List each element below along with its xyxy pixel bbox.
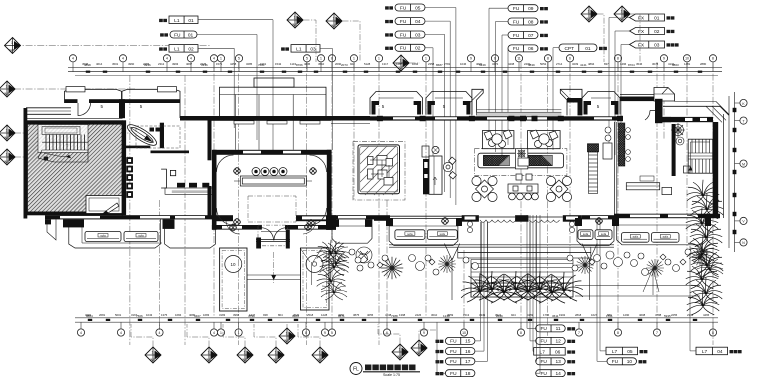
callout L1 02: [159, 47, 167, 50]
svg-text:8: 8: [617, 331, 619, 335]
svg-text:4408: 4408: [508, 62, 515, 66]
svg-text:FX: FX: [638, 15, 645, 21]
callout FU 13: [536, 358, 566, 365]
reception dark blocks: [150, 128, 155, 132]
side cabinet dark: [619, 123, 625, 166]
palm plants: [689, 242, 715, 262]
svg-text:FU: FU: [612, 359, 619, 365]
service station center: [508, 174, 538, 200]
svg-text:L7: L7: [540, 349, 546, 355]
lounge sofa table: [626, 176, 671, 195]
door arc bay1: [78, 103, 91, 116]
parasol table: [381, 257, 404, 280]
svg-text:12: 12: [555, 339, 561, 345]
terrace edge: [389, 245, 614, 247]
bottom dimension line: [75, 318, 718, 322]
callout FU 10: [607, 358, 637, 365]
dining set: [546, 176, 571, 201]
svg-text:2681: 2681: [99, 313, 106, 317]
svg-text:01: 01: [654, 15, 660, 21]
svg-text:1092: 1092: [412, 62, 419, 66]
svg-text:3167: 3167: [131, 313, 138, 317]
svg-text:03: 03: [310, 46, 316, 52]
terrace planter box: [471, 283, 573, 297]
lounge long table: [234, 176, 312, 186]
svg-text:8: 8: [547, 57, 549, 61]
callout FX 03: [630, 41, 665, 48]
svg-text:sofa: sofa: [583, 232, 589, 236]
svg-text:3966: 3966: [233, 313, 240, 317]
svg-text:4080: 4080: [189, 313, 196, 317]
right lounge internal wall: [672, 124, 676, 176]
svg-text:4238: 4238: [385, 313, 392, 317]
svg-text:Scale 1:75: Scale 1:75: [383, 373, 400, 377]
wall center-right: [370, 116, 620, 120]
svg-text:3875: 3875: [353, 313, 360, 317]
left terrace circles: [349, 249, 361, 263]
svg-text:1228: 1228: [321, 313, 328, 317]
svg-text:5052: 5052: [540, 62, 547, 66]
hatched carpet: [358, 145, 400, 194]
svg-text:06: 06: [555, 349, 561, 355]
right grid bubbles: [735, 99, 748, 246]
svg-text:1290: 1290: [623, 313, 630, 317]
callout FU 17: [436, 360, 444, 363]
svg-text:4045: 4045: [304, 62, 311, 66]
terrace steps: [458, 247, 591, 283]
svg-text:FU: FU: [513, 33, 520, 39]
svg-text:14: 14: [555, 371, 561, 377]
svg-text:sofa: sofa: [440, 232, 446, 236]
svg-text:01: 01: [188, 32, 194, 38]
callout FU 04: [385, 20, 393, 23]
terrace chairs: [357, 249, 691, 276]
svg-text:9: 9: [663, 57, 665, 61]
svg-text:FU: FU: [450, 371, 457, 377]
svg-text:FU: FU: [400, 5, 407, 11]
index diamond: [326, 13, 342, 29]
svg-text:2090: 2090: [335, 62, 342, 66]
entry planter left: [220, 248, 247, 311]
top dimension line: [68, 67, 722, 75]
lounge corner planters: [233, 167, 240, 174]
wall hatched room bottom: [27, 212, 123, 216]
svg-text:1481: 1481: [684, 62, 691, 66]
terrace edge right: [575, 268, 700, 296]
svg-text:4: 4: [72, 57, 74, 61]
carpet dash-dot border: [353, 142, 405, 200]
svg-text:FX: FX: [638, 42, 645, 48]
svg-text:02: 02: [415, 46, 421, 52]
svg-text:1496: 1496: [620, 62, 627, 66]
svg-text:938: 938: [263, 313, 268, 317]
left datum dash-dot horizontals: [14, 46, 210, 158]
svg-text:4510: 4510: [318, 62, 325, 66]
fern column right: [687, 180, 720, 205]
svg-text:FU: FU: [513, 19, 520, 25]
svg-text:4505: 4505: [82, 62, 89, 66]
svg-text:4055: 4055: [367, 313, 374, 317]
callout FU 01: [160, 33, 168, 36]
svg-text:4: 4: [120, 331, 122, 335]
svg-text:3285: 3285: [246, 62, 253, 66]
svg-text:4960: 4960: [128, 62, 135, 66]
svg-text:837: 837: [604, 62, 609, 66]
svg-text:02: 02: [188, 46, 194, 52]
wall bottom band: [45, 214, 720, 223]
svg-text:4: 4: [190, 57, 192, 61]
svg-text:2549: 2549: [293, 313, 300, 317]
svg-text:10: 10: [685, 57, 689, 61]
callout FU 08: [508, 18, 538, 25]
svg-text:FU: FU: [450, 359, 457, 365]
building exterior walls: [24, 78, 371, 219]
svg-text:3209: 3209: [572, 62, 579, 66]
svg-text:sofa: sofa: [407, 232, 413, 236]
svg-text:924: 924: [511, 313, 516, 317]
svg-text:4: 4: [80, 331, 82, 335]
svg-text:L1: L1: [174, 46, 180, 52]
svg-text:1143: 1143: [290, 62, 296, 66]
callout FU 06: [508, 45, 538, 52]
svg-text:CPT: CPT: [564, 46, 574, 52]
plants at right corner: [671, 123, 685, 145]
svg-text:FU: FU: [540, 371, 547, 377]
parasol table: [576, 256, 594, 274]
svg-text:1: 1: [353, 57, 355, 61]
entrance double door: [256, 225, 290, 248]
svg-text:FU: FU: [400, 46, 407, 52]
svg-text:sofa: sofa: [663, 235, 669, 239]
svg-text:1571: 1571: [216, 62, 223, 66]
svg-text:7: 7: [578, 331, 580, 335]
lounge table lamps: [252, 168, 287, 176]
wall hatched room right: [122, 120, 126, 215]
callout FU 16: [436, 350, 444, 353]
vestibule flower left: [229, 224, 236, 231]
svg-text:1347: 1347: [249, 313, 256, 317]
svg-text:sofa: sofa: [100, 234, 106, 238]
eave chamfer corner: [675, 101, 717, 103]
stair in hatched room: [38, 125, 88, 163]
svg-text:FU: FU: [400, 32, 407, 38]
entry canopy: [220, 87, 327, 117]
wall left exterior: [24, 108, 28, 219]
reception dashed zone: [136, 126, 180, 148]
wall piers bottom-left: [63, 219, 84, 227]
svg-text:4: 4: [122, 57, 124, 61]
svg-text:FU: FU: [174, 32, 181, 38]
wall right exterior: [713, 122, 719, 218]
svg-text:7: 7: [656, 331, 658, 335]
svg-text:4132: 4132: [668, 62, 675, 66]
window seat sofa: [578, 230, 593, 240]
svg-text:889: 889: [607, 313, 612, 317]
svg-text:sofa: sofa: [138, 234, 144, 238]
svg-text:1046: 1046: [460, 62, 467, 66]
planter ferns: [461, 273, 499, 302]
svg-text:15: 15: [465, 339, 471, 345]
svg-text:FU: FU: [540, 326, 547, 332]
svg-text:4697: 4697: [186, 62, 193, 66]
dimension tick marks top: [86, 71, 702, 73]
svg-text:2073: 2073: [341, 63, 348, 67]
callout FU 11: [536, 325, 566, 332]
svg-text:2255: 2255: [671, 313, 678, 317]
svg-text:5935: 5935: [664, 314, 671, 318]
window seat sofa: [595, 230, 612, 240]
lounge room walls: [212, 150, 332, 230]
entry wall: [211, 116, 331, 121]
svg-text:FU: FU: [540, 359, 547, 365]
svg-text:3349: 3349: [479, 313, 486, 317]
svg-text:8: 8: [617, 57, 619, 61]
svg-text:5001: 5001: [115, 313, 122, 317]
svg-text:1043: 1043: [146, 313, 153, 317]
svg-text:04: 04: [415, 19, 421, 25]
partition L: [161, 169, 176, 188]
svg-text:1287: 1287: [396, 62, 403, 66]
svg-text:L1: L1: [174, 18, 180, 24]
entry recess center-right: [470, 89, 582, 116]
stair right: [684, 139, 713, 173]
drawing title: [350, 363, 420, 377]
index diamond bottom: [411, 340, 427, 356]
index diamond bottom: [201, 347, 217, 363]
lounge rug dashed: [248, 196, 296, 222]
parasol table: [438, 255, 456, 273]
cabinet squares column: [127, 158, 133, 198]
svg-text:5: 5: [306, 57, 308, 61]
svg-text:4: 4: [166, 57, 168, 61]
buffet counter left: [484, 156, 510, 166]
svg-text:2714: 2714: [556, 62, 563, 66]
callout FU 18: [436, 372, 444, 375]
svg-text:2400: 2400: [524, 62, 531, 66]
svg-text:04: 04: [717, 349, 723, 355]
svg-text:4608: 4608: [639, 313, 646, 317]
svg-text:1766: 1766: [543, 313, 550, 317]
window seat sofa: [124, 232, 158, 242]
index diamond: [287, 12, 303, 28]
svg-text:06: 06: [528, 46, 534, 52]
callout L7 04: [696, 347, 728, 355]
svg-text:1: 1: [320, 57, 322, 61]
vestibule flower right: [304, 223, 311, 230]
index diamond: [393, 55, 409, 71]
fern hedge at entry right: [317, 240, 346, 262]
glazing line right lounge: [615, 122, 617, 214]
svg-text:2355: 2355: [143, 62, 150, 66]
svg-text:8: 8: [305, 331, 307, 335]
svg-text:01: 01: [585, 46, 591, 52]
dimension value texts: [82, 62, 710, 317]
svg-text:1542: 1542: [275, 62, 282, 66]
wall right section top: [620, 88, 729, 219]
window seat sofa: [85, 232, 121, 242]
bay mid outline: [389, 219, 458, 245]
svg-text:07: 07: [528, 33, 534, 39]
callout L7 05: [606, 347, 638, 355]
index diamond: [5, 38, 21, 54]
svg-text:03: 03: [415, 32, 421, 38]
svg-text:2880: 2880: [700, 62, 707, 66]
svg-text:3472: 3472: [492, 62, 499, 66]
bar stools: [432, 146, 457, 179]
bay window top: [426, 92, 472, 115]
callout FU 02: [385, 47, 393, 50]
window band top-left: [26, 107, 71, 109]
bay window top: [370, 92, 423, 115]
door arc right: [645, 111, 657, 121]
entry walkway: [247, 252, 301, 283]
callout FX 02: [630, 28, 665, 35]
callout FX 01: [630, 14, 665, 21]
bay right outline: [577, 219, 614, 245]
svg-text:9: 9: [470, 57, 472, 61]
callout FU 15: [436, 340, 444, 343]
callout FU 07: [508, 32, 538, 39]
index diamond bottom: [279, 328, 295, 344]
svg-text:3078: 3078: [652, 62, 659, 66]
columns: [377, 116, 623, 121]
svg-text:1: 1: [220, 331, 222, 335]
svg-text:2518: 2518: [307, 313, 314, 317]
svg-text:4: 4: [159, 331, 161, 335]
svg-text:2781: 2781: [444, 62, 451, 66]
index diamond bottom: [237, 347, 253, 363]
svg-text:8: 8: [520, 331, 522, 335]
svg-text:FU: FU: [513, 6, 520, 12]
svg-text:2426: 2426: [415, 313, 422, 317]
right dimension ticks: [733, 108, 737, 234]
svg-text:922: 922: [350, 62, 355, 66]
north/pencil symbol: [103, 203, 119, 214]
svg-text:L7: L7: [612, 349, 618, 355]
callout FU 09: [508, 5, 538, 12]
svg-text:09: 09: [528, 6, 534, 12]
svg-text:3559: 3559: [447, 313, 454, 317]
entry planter right: [301, 248, 330, 310]
callout L7 06: [534, 348, 566, 356]
svg-text:2358: 2358: [428, 62, 435, 66]
scribble table: [356, 247, 372, 263]
svg-text:11: 11: [556, 326, 561, 332]
fancy chairs upper left: [482, 130, 514, 149]
svg-text:4: 4: [213, 57, 215, 61]
window seat sofa: [652, 233, 680, 243]
svg-text:17: 17: [465, 359, 471, 365]
service notch in hatched room: [86, 196, 122, 214]
index diamond: [581, 6, 597, 22]
flower at pier: [441, 217, 448, 224]
svg-text:1317: 1317: [382, 62, 389, 66]
callout L1 01: [159, 19, 167, 22]
dining set: [472, 176, 497, 201]
svg-text:4650: 4650: [338, 313, 345, 317]
svg-text:7388: 7388: [391, 314, 398, 318]
bay far-right outline: [617, 218, 708, 245]
svg-text:05: 05: [627, 349, 633, 355]
svg-text:1: 1: [425, 57, 427, 61]
svg-text:6: 6: [569, 57, 571, 61]
svg-text:08: 08: [528, 19, 534, 25]
svg-text:9: 9: [423, 331, 425, 335]
svg-text:4894: 4894: [588, 62, 595, 66]
svg-text:3010: 3010: [431, 313, 438, 317]
callout L1 03: [281, 47, 289, 50]
svg-text:9: 9: [324, 331, 326, 335]
svg-text:M: M: [742, 162, 745, 166]
svg-text:4501: 4501: [112, 62, 119, 66]
svg-text:FX: FX: [638, 29, 645, 35]
callout FU 05: [385, 6, 393, 9]
svg-text:1902: 1902: [559, 313, 566, 317]
svg-text:4993: 4993: [172, 62, 179, 66]
svg-text:1683: 1683: [203, 313, 210, 317]
plant at lounge left bay: [323, 241, 349, 261]
svg-text:1: 1: [378, 57, 380, 61]
bay left outline: [47, 219, 216, 248]
svg-text:16: 16: [465, 349, 471, 355]
tree symbol: [300, 244, 597, 301]
index diamond: [614, 6, 630, 22]
hatched room (back of house): [28, 124, 123, 214]
index diamond left: [0, 149, 15, 165]
svg-text:05: 05: [415, 5, 421, 11]
svg-text:11: 11: [517, 57, 521, 61]
svg-text:804: 804: [278, 313, 283, 317]
reception canoe desk: [125, 121, 159, 149]
svg-text:1627: 1627: [591, 313, 598, 317]
wine cabinet: [588, 144, 599, 152]
buffet counter right: [526, 156, 552, 166]
trunk lines: [482, 222, 537, 290]
svg-text:FU: FU: [513, 46, 520, 52]
bay below rug zone: [332, 219, 372, 243]
svg-text:FU: FU: [400, 19, 407, 25]
top grid bubbles: [69, 55, 716, 72]
svg-text:8: 8: [712, 57, 714, 61]
svg-text:T: T: [742, 119, 744, 123]
svg-text:1398: 1398: [399, 313, 406, 317]
svg-text:1513: 1513: [463, 313, 470, 317]
svg-text:4141: 4141: [580, 63, 587, 67]
svg-text:1375: 1375: [161, 313, 168, 317]
svg-text:1961: 1961: [260, 62, 267, 66]
svg-text:3524: 3524: [495, 313, 502, 317]
reception counter row: [165, 183, 213, 195]
svg-text:2818: 2818: [575, 313, 582, 317]
svg-text:5128: 5128: [364, 62, 371, 66]
window seat sofa: [622, 233, 650, 243]
wall top of hatched room: [27, 120, 123, 124]
svg-text:4465: 4465: [703, 313, 710, 317]
svg-text:02: 02: [654, 29, 660, 35]
furniture on carpet: [368, 156, 394, 186]
svg-text:10: 10: [627, 359, 633, 365]
bay window top: [582, 92, 620, 115]
svg-text:4600: 4600: [476, 62, 483, 66]
svg-text:4458: 4458: [230, 62, 237, 66]
lounge corner arcs: [217, 155, 327, 225]
svg-text:2312: 2312: [158, 62, 165, 66]
svg-text:L1: L1: [296, 46, 302, 52]
svg-text:18: 18: [465, 371, 471, 377]
svg-text:sofa: sofa: [601, 232, 607, 236]
svg-text:3611: 3611: [552, 314, 559, 318]
window seat sofa: [395, 230, 425, 240]
